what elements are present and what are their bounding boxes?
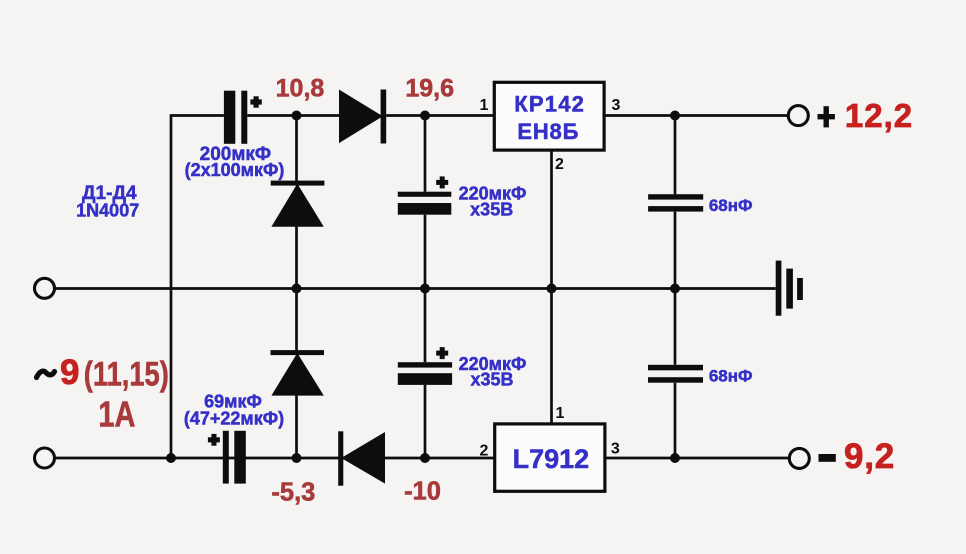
capacitor C3 plus sign [436,180,448,185]
diode D1 triangle [271,184,323,227]
diode D2 cathode bar [381,90,387,144]
svg-text:ЕН8Б: ЕН8Б [517,119,579,144]
capacitor C2 69uF plate negative [234,431,246,484]
capacitor C4 plus sign [436,351,448,356]
wire D3 to bottom [295,395,298,458]
capacitor C3 220uF plate negative [398,203,452,215]
wire middle: AC input to ground [56,287,776,290]
capacitor C1 200uF plate negative [224,91,235,144]
node middle C-branch dot [420,284,430,294]
wire vertical node 10.8 to D1 [295,116,298,182]
svg-text:3: 3 [612,97,621,114]
terminal output -9.2 circle [789,448,809,468]
capacitor C2 plus sign [208,437,220,442]
diode D4 cathode bar [338,431,343,485]
svg-text:КР142: КР142 [514,92,585,117]
capacitor C5 68nF plate top [648,194,703,199]
capacitor C2 69uF plate positive [223,431,229,484]
label ~ tilde [37,371,55,377]
capacitor C1 plus sign [250,99,261,104]
svg-text:(2х100мкФ): (2х100мкФ) [185,160,285,180]
capacitor C6 68nF plate bottom [648,377,703,383]
svg-text:3: 3 [611,441,620,458]
wire C6 to bottom [674,383,677,458]
node bottom 68nF dot [670,453,680,463]
regulator U2 L7912 box [495,424,605,491]
wire C5 to middle [674,212,677,289]
wire top: D2 to U1 pin1 [386,114,494,117]
minus sign output [819,454,836,462]
node bottom D-branch dot [292,453,302,463]
svg-text:х35В: х35В [470,370,513,390]
diode D1 cathode bar [271,181,325,186]
svg-text:1А: 1А [98,393,135,434]
node bottom C-branch dot [420,453,430,463]
svg-text:68нФ: 68нФ [709,196,753,215]
capacitor C6 68nF plate top [648,365,703,371]
diode D3 cathode bar [271,350,325,355]
diode D3 triangle [271,353,323,396]
ground symbol bar 1 [776,261,782,316]
svg-text:9: 9 [60,353,79,392]
wire top: U1 pin3 to +12.2 terminal [604,114,788,117]
capacitor C3 220uF plate positive [398,192,452,197]
capacitor C4 220uF plate positive [398,362,452,367]
diode D4 triangle [341,432,385,484]
svg-text:19,6: 19,6 [405,75,454,103]
svg-text:(11,15): (11,15) [84,356,169,394]
node middle D-branch dot [292,284,302,294]
svg-text:68нФ: 68нФ [709,366,753,385]
svg-text:2: 2 [555,156,564,173]
plus sign output [818,114,835,119]
wire C3 to middle [424,215,427,289]
node 10.8 dot [292,111,302,121]
capacitor C5 68nF plate bottom [648,206,703,212]
wire D1 to D3 [295,227,298,351]
wire C4 to bottom [424,385,427,458]
svg-text:9,2: 9,2 [844,437,895,476]
wire top node to C5 [674,116,677,195]
regulator U1 KP142EH8B box [494,82,604,150]
ground symbol bar 2 [786,269,793,309]
terminal output +12.2 circle [788,106,808,126]
wire bottom: AC input to U2 pin2 [56,457,495,460]
wire middle to U2 pin1 [550,289,553,424]
svg-text:12,2: 12,2 [845,97,913,134]
wire U1 pin2 to middle [550,150,553,288]
wire middle to C6 [674,289,677,365]
capacitor C4 220uF plate negative [398,373,452,385]
capacitor C1 200uF plate positive [241,91,247,144]
wire middle to C4 [424,289,427,363]
terminal AC input upper circle [35,278,55,298]
svg-text:-10: -10 [404,478,441,506]
svg-text:1: 1 [480,97,489,114]
node 19.6 dot [420,111,430,121]
svg-text:(47+22мкФ): (47+22мкФ) [184,408,284,428]
node middle pin2 dot [547,284,557,294]
svg-text:-5,3: -5,3 [271,479,315,507]
wire top: corner to C1 [171,116,224,459]
node bottom left dot [166,453,176,463]
svg-text:2: 2 [480,443,489,460]
svg-text:х35В: х35В [470,199,513,219]
wire bottom: U2 pin3 to -9.2 terminal [605,457,789,460]
svg-text:1N4007: 1N4007 [76,200,139,220]
svg-text:L7912: L7912 [513,444,590,474]
svg-text:10,8: 10,8 [276,75,325,103]
wire vertical node 19.6 to C3 [424,116,427,192]
node middle 68nF dot [670,284,680,294]
ground symbol bar 3 [797,278,803,300]
svg-text:1: 1 [556,405,565,422]
diode D2 triangle [339,90,383,144]
terminal AC input lower circle [35,448,55,468]
wire top: C1 to D2 [247,114,339,117]
node top right dot [670,111,680,121]
